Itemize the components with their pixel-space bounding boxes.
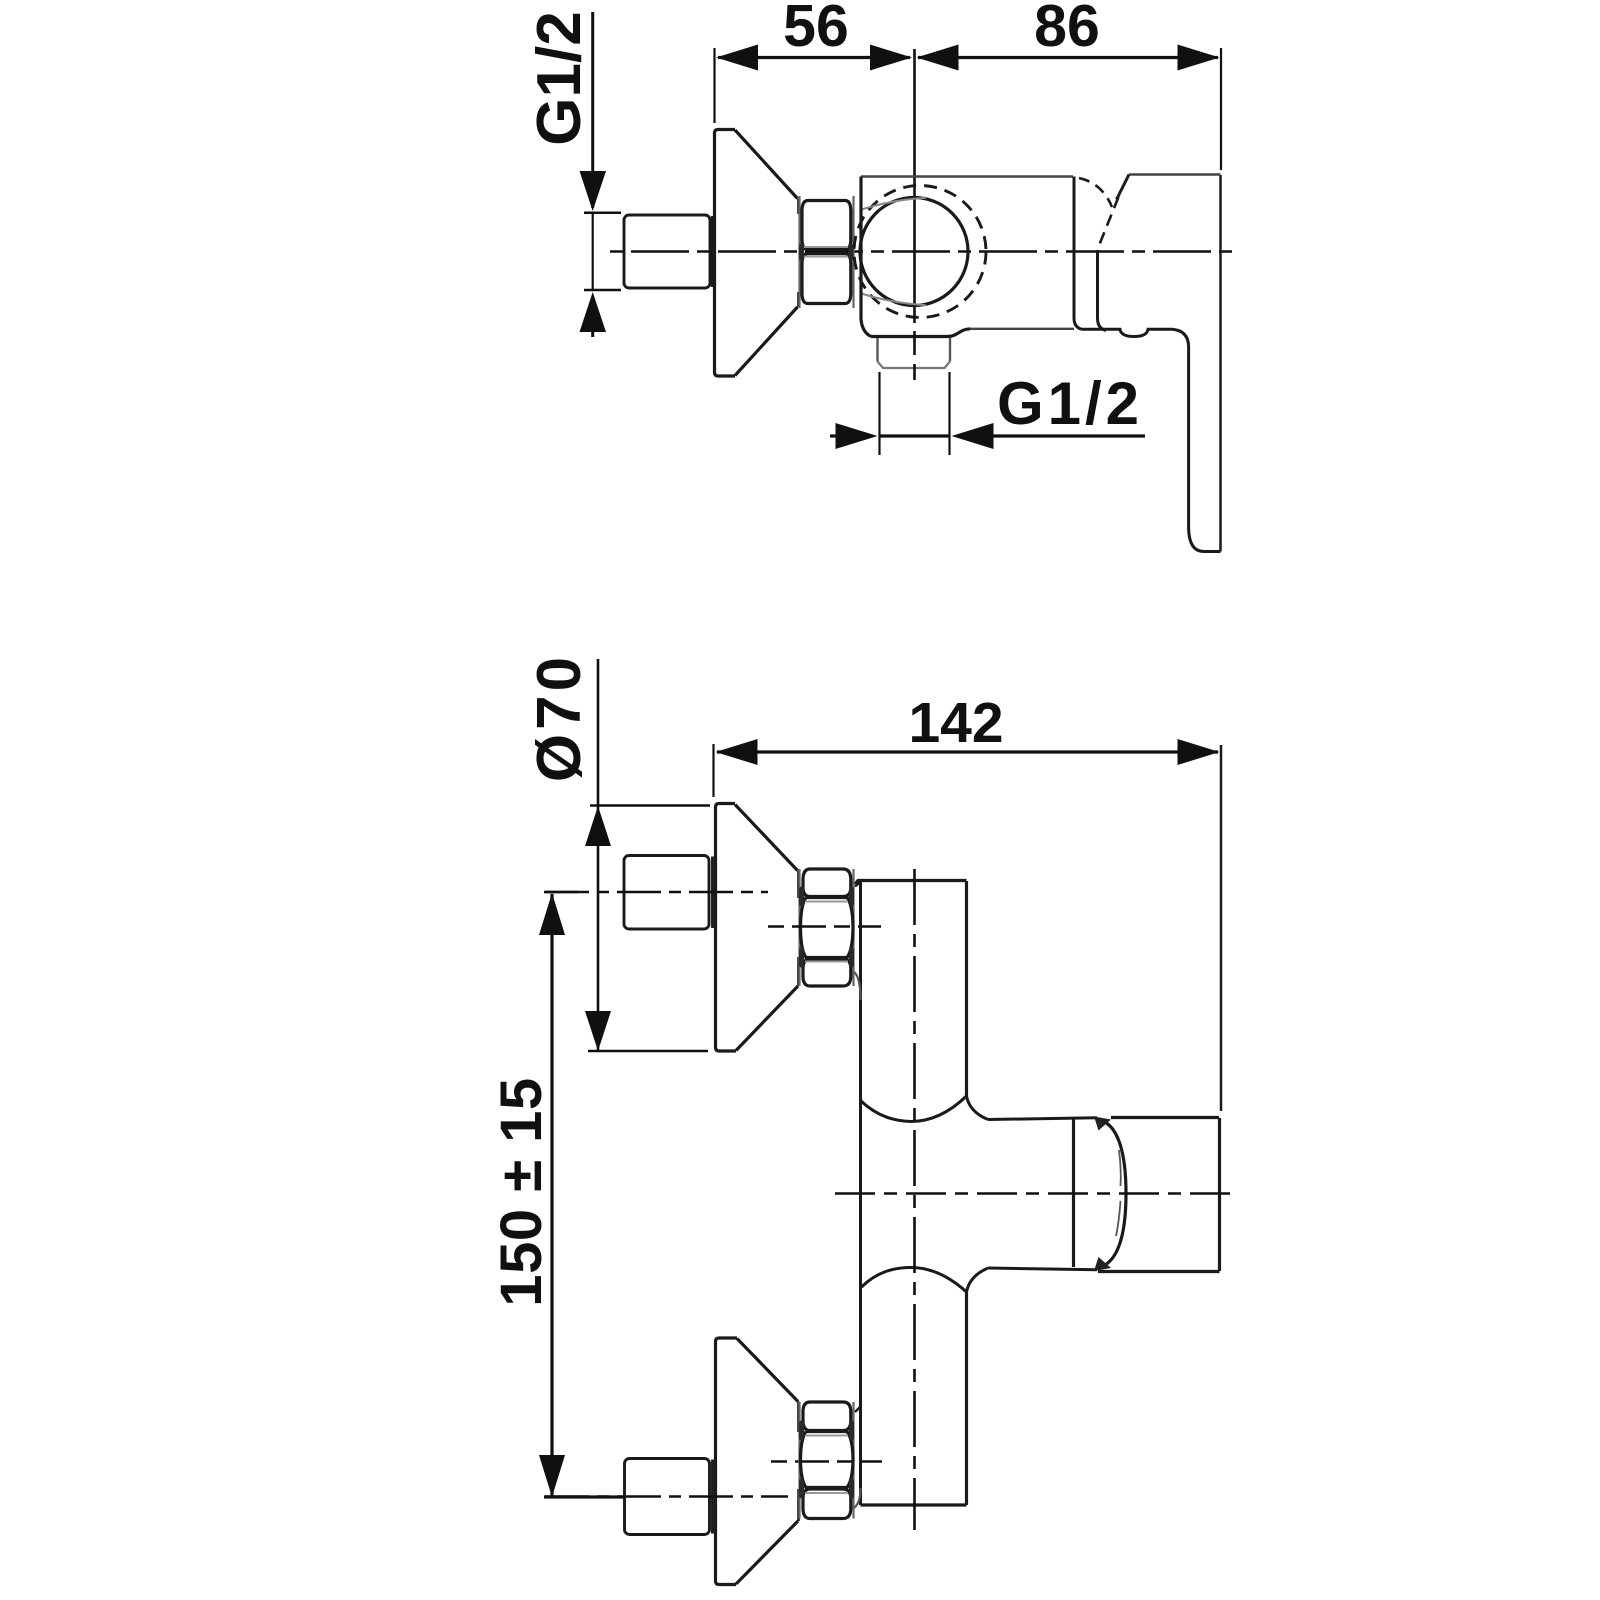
dimension 56 line [716,45,912,71]
lower wall nipple (front view) [625,1459,713,1535]
svg-text:86: 86 [1034,0,1100,59]
wall nipple (top view) [624,215,713,288]
lower nut centerline [771,1460,882,1463]
svg-text:56: 56 [783,0,849,59]
lower hex union nut (front view) [800,1402,854,1519]
mixer body column (front view) [854,881,1097,1509]
extension line right (86) [1220,48,1222,170]
dimension 150 +/- 15 line [539,892,624,1497]
vertical centerline tail below circle (top view) [913,307,916,385]
G1/2 leader and arrows (thread dia of wall nipple, top view) [580,12,622,337]
upper nut centerline [768,925,881,928]
upper escutcheon cone (front view) [716,804,799,1052]
svg-text:G1/2: G1/2 [997,370,1143,437]
tangent blend curves nut-to-sphere [860,198,926,305]
hex union nut (top view) [800,196,854,308]
valve cap circle (top view) [860,198,968,306]
extension/center line middle [913,49,916,307]
hidden body circle dashed (top view) [854,186,986,318]
G1/2 outlet label (top view) [997,370,1143,437]
nut corner shading (upper nut) [802,889,852,965]
column vertical centerline [913,869,916,1530]
G1/2 outlet dimension (top view) [830,372,1145,455]
escutcheon cone (top view) [715,130,799,377]
handle lever edge-on line (front view) [1220,745,1223,1111]
svg-text:150 ± 15: 150 ± 15 [489,1077,554,1306]
svg-text:142: 142 [908,691,1003,755]
nut corner shading (top view) [802,246,852,258]
dimension 56 text [783,0,849,59]
outlet horizontal centerline [835,1192,1237,1195]
dia 70 label (rotated) [525,653,594,782]
dimension 142 line [714,739,1220,797]
lower nipple centerline [545,1495,788,1498]
shower outlet boss (top view) [878,338,951,368]
dia 70 dimension line [585,659,710,1051]
extension line left (56) [713,48,715,123]
valve body outline (top view) [861,175,1221,552]
upper nipple centerline [545,891,768,894]
svg-text:G1/2: G1/2 [525,11,594,145]
nut corner shading (lower nut) [802,1423,852,1496]
upper hex union nut (front view) [800,869,854,986]
G1/2 label top-left (rotated) [525,11,594,145]
dimension 150 +/- 15 (rotated) [489,1077,554,1306]
dimension 142 text [908,691,1003,755]
dimension 86 text [1034,0,1100,59]
upper wall nipple (front view) [624,856,713,930]
dimension 86 line [917,45,1220,71]
dark wedges at dome tips [1094,1117,1111,1272]
centerline horizontal (top view) [609,250,1232,253]
outlet boss dome and handle head (front view) [1074,1118,1220,1272]
lower escutcheon cone (front view) [716,1338,799,1585]
svg-text:Ø70: Ø70 [525,653,594,782]
